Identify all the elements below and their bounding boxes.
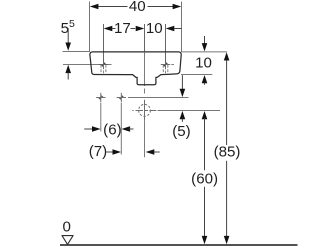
dimension (60) [191, 111, 218, 244]
svg-text:10: 10 [195, 54, 212, 71]
svg-text:40: 40 [129, 0, 146, 15]
supply cross right [117, 93, 126, 102]
dimension 17 [104, 20, 145, 37]
supply cross left [96, 93, 105, 102]
dimension 40 [90, 0, 181, 15]
dimension 10 (top row) [146, 20, 182, 37]
svg-text:(7): (7) [89, 143, 107, 160]
dimension (85) [214, 52, 241, 244]
svg-text:(85): (85) [214, 144, 241, 161]
extension line left tap (x=103.5) [103, 24, 105, 63]
tap hole left (dashed walls) [101, 65, 106, 72]
extension line left of 40 dim [89, 2, 91, 52]
svg-text:(6): (6) [103, 121, 121, 138]
svg-text:(5): (5) [172, 123, 190, 140]
svg-text:17: 17 [114, 20, 131, 37]
drain ref line right (y=110) [158, 110, 221, 112]
basin-top ref line right (y=51.9) [182, 51, 228, 53]
ref line tap-centre left (y=64.5) [63, 64, 112, 66]
dimension (5) [172, 75, 190, 140]
basin outline [90, 52, 181, 85]
extension line right tap (x=165.5) [165, 24, 167, 63]
supply ref line right (y=97.5) [128, 97, 189, 99]
tap hole right (dashed walls) [163, 65, 168, 72]
dimension (6) [84, 121, 133, 138]
ref line basin-top left (y=51.5) [63, 51, 91, 53]
extension line right of 40 dim [181, 2, 183, 53]
dimension 5^5 (left) [61, 18, 75, 79]
svg-text:0: 0 [62, 219, 70, 236]
svg-text:(60): (60) [191, 170, 218, 187]
extension line below supply cross right [120, 103, 122, 155]
zero level triangle [62, 236, 73, 245]
extension line below supply cross left [100, 103, 102, 132]
tap cross right [161, 60, 174, 73]
dimension (7) [89, 143, 160, 160]
svg-text:10: 10 [146, 20, 163, 37]
centre line of basin (x=144.5) [144, 24, 146, 157]
basin-bottom ref line right (y=74.5) [181, 74, 212, 76]
tap cross left [99, 60, 108, 73]
floor line [60, 244, 298, 246]
drain circle [132, 100, 156, 121]
dimension 10 (right) [195, 36, 212, 85]
